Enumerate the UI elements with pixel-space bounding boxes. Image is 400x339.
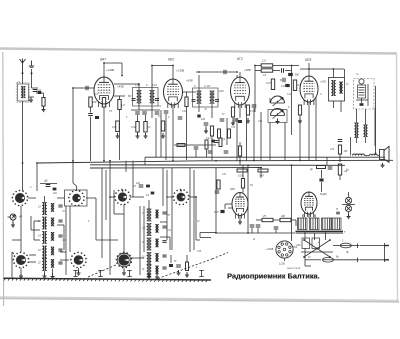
svg-text:С 117: С 117	[204, 85, 211, 88]
svg-text:6К3: 6К3	[168, 58, 174, 62]
svg-text:ЦВ: ЦВ	[44, 180, 48, 183]
svg-text:П: П	[336, 207, 338, 211]
svg-text:360: 360	[295, 73, 300, 77]
svg-text:6П3: 6П3	[305, 58, 311, 62]
svg-text:+В: +В	[344, 170, 347, 173]
svg-text:+230В: +230В	[106, 68, 114, 72]
svg-text:0,1: 0,1	[147, 125, 151, 129]
svg-text:С: С	[146, 84, 148, 87]
svg-text:+85В: +85В	[186, 79, 193, 83]
svg-text:+98В: +98В	[244, 68, 251, 72]
svg-text:0,01: 0,01	[36, 88, 42, 92]
svg-text:Радиоприемник Балтика.: Радиоприемник Балтика.	[227, 272, 320, 281]
svg-text:С19: С19	[258, 121, 263, 123]
svg-text:С37: С37	[62, 240, 67, 242]
svg-text:0,25: 0,25	[238, 175, 243, 178]
svg-text:С: С	[288, 106, 290, 109]
svg-text:С15: С15	[231, 127, 236, 129]
svg-text:0,45: 0,45	[259, 175, 264, 178]
svg-text:6А7: 6А7	[100, 58, 106, 62]
svg-text:6,10: 6,10	[152, 84, 157, 87]
svg-text:112В: 112В	[279, 263, 285, 266]
svg-text:-230: -230	[295, 244, 301, 247]
svg-text:+230В: +230В	[266, 248, 274, 251]
svg-text:свет (тип): свет (тип)	[287, 267, 300, 270]
svg-text:5Ц4С: 5Ц4С	[320, 192, 328, 196]
svg-text:6Г2: 6Г2	[237, 57, 243, 61]
svg-text:0,07: 0,07	[214, 211, 219, 214]
svg-text:0,1: 0,1	[158, 115, 162, 118]
svg-text:С: С	[194, 85, 196, 88]
svg-text:+230: +230	[320, 80, 326, 84]
svg-text:10Л: 10Л	[219, 90, 224, 93]
svg-text:100: 100	[201, 118, 206, 121]
svg-text:С29: С29	[330, 149, 335, 151]
svg-text:1,0: 1,0	[121, 103, 125, 107]
svg-text:1W: 1W	[344, 150, 348, 153]
svg-text:25: 25	[262, 214, 266, 218]
svg-text:6Х6: 6Х6	[230, 187, 235, 191]
svg-text:С41: С41	[167, 229, 172, 232]
svg-text:0,07: 0,07	[281, 85, 286, 88]
svg-text:210: 210	[52, 193, 58, 195]
svg-text:ЦВ: ЦВ	[281, 214, 285, 218]
svg-text:+85В: +85В	[117, 85, 124, 89]
svg-text:+230В: +230В	[176, 69, 184, 73]
svg-text:0,27: 0,27	[266, 82, 271, 85]
svg-text:С45: С45	[197, 250, 202, 253]
svg-text:3,3к: 3,3к	[131, 125, 137, 129]
svg-text:220: 220	[91, 100, 97, 104]
svg-text:С31: С31	[222, 174, 227, 176]
svg-text:1,0: 1,0	[262, 59, 266, 63]
svg-text:ВЧ: ВЧ	[128, 95, 132, 98]
svg-text:С12: С12	[182, 111, 187, 113]
svg-text:(1: (1	[18, 80, 21, 84]
svg-text:С17: С17	[250, 111, 255, 113]
svg-text:С21: С21	[287, 94, 292, 96]
